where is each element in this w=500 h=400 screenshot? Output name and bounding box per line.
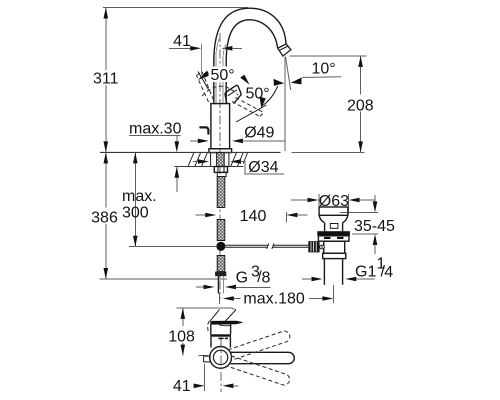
svg-text:140: 140 <box>240 208 267 225</box>
wire 50deg arc arrowheads <box>198 71 211 80</box>
op-amp spout outer arc <box>214 8 286 62</box>
wire ext line x201 <box>200 44 202 76</box>
svg-text:35-45: 35-45 <box>354 218 395 235</box>
op-amp spout inner arc <box>226 20 277 62</box>
wire vertical reference from tip <box>284 57 286 152</box>
wire dashed swung spout up <box>228 330 291 361</box>
svg-text:Ø34: Ø34 <box>248 159 278 176</box>
resistor drain mid body <box>324 241 345 253</box>
wire bottom centerline <box>220 339 222 392</box>
wire G3/8 dimension <box>196 286 205 288</box>
wire 140 dimension <box>196 214 207 216</box>
resistor faucet body <box>211 104 230 149</box>
wire 108 bottom ext <box>199 355 209 357</box>
svg-text:4: 4 <box>384 264 393 281</box>
resistor funnel neck <box>325 223 343 232</box>
wire deck bottom line <box>174 166 243 168</box>
wire dashed swung spout down <box>228 356 291 387</box>
wire bottom view top ext line <box>176 307 231 309</box>
resistor left nub <box>204 356 211 362</box>
wire 41 top dimension <box>169 47 191 49</box>
resistor locknut <box>214 167 227 173</box>
wire ext line at outlet level <box>290 55 367 57</box>
wire 10deg tilted line <box>286 57 291 90</box>
wire Ø34 dimension arrows <box>193 161 199 163</box>
wire 208 dimension line <box>360 56 362 95</box>
capacitor lever blade top view <box>211 321 243 324</box>
svg-text:50°: 50° <box>211 67 235 84</box>
capacitor aerator tip <box>278 44 291 56</box>
wire G1 1/4 dimension <box>312 277 323 282</box>
svg-text:208: 208 <box>347 98 374 115</box>
wire deck top line <box>100 151 281 153</box>
wire pop-up rod left segment <box>226 244 268 246</box>
svg-text:386: 386 <box>91 210 118 227</box>
wire drain centerline ext <box>332 285 334 303</box>
wire max180 dimension <box>223 296 234 301</box>
wire 10deg leader <box>302 76 341 79</box>
resistor neck boss <box>330 224 338 229</box>
svg-text:max.180: max.180 <box>243 291 304 308</box>
wire 41 bottom dimension <box>193 385 195 387</box>
resistor bottom body <box>210 324 212 335</box>
wire top extension line at spout top <box>103 7 248 9</box>
svg-text:41: 41 <box>173 33 191 50</box>
wire max30 underline and leader <box>129 134 181 136</box>
ground deck hatching <box>188 153 247 166</box>
capacitor base flange <box>209 149 232 153</box>
wire 386 dimension line <box>105 152 107 207</box>
wire 108 dimension <box>182 308 184 326</box>
node spout base circle <box>210 347 232 369</box>
wire G3/8 nipple <box>217 276 219 293</box>
svg-text:50°: 50° <box>246 86 270 103</box>
svg-text:300: 300 <box>122 204 149 221</box>
transistor knurled knob <box>308 241 319 252</box>
wire funnel taper <box>319 215 348 222</box>
transistor solid lever tilted <box>225 85 241 103</box>
resistor drain upper body <box>318 236 349 241</box>
svg-text:8: 8 <box>262 270 271 287</box>
wire max300 dimension line <box>134 152 136 246</box>
svg-text:311: 311 <box>93 71 119 88</box>
wire ext line x204 <box>204 364 206 391</box>
capacitor drain flange black <box>317 231 350 236</box>
wire pop-up rod right segment <box>273 244 308 246</box>
wire dashed swing arc <box>202 86 238 96</box>
wire dashed lever right position <box>232 102 260 117</box>
svg-text:41: 41 <box>173 378 191 395</box>
wire spout riser outer walls <box>213 61 215 104</box>
svg-text:10°: 10° <box>312 61 336 78</box>
wire 311 dimension line <box>105 8 107 71</box>
wire Ø63 ext lines <box>318 194 320 214</box>
resistor drain lock ring <box>323 253 346 258</box>
wire nipple ext <box>219 294 221 305</box>
wire deck ext right <box>292 151 365 153</box>
svg-text:Ø49: Ø49 <box>244 125 274 142</box>
resistor drain funnel rim <box>319 207 348 215</box>
node pivot ball <box>320 245 325 249</box>
wire deck hole edges <box>210 153 212 167</box>
resistor braided hose segment 2 <box>217 220 225 241</box>
resistor braided hose segment 3 <box>217 256 225 272</box>
wire rod break marks <box>267 244 269 249</box>
wire spout riser inner walls <box>216 39 220 104</box>
wire raised lever diagonals <box>210 309 220 321</box>
wire tailpipe <box>323 259 325 285</box>
wire ext line at rod level <box>129 246 216 248</box>
resistor shank <box>217 172 226 176</box>
node pop-up rod joint <box>216 242 225 251</box>
wire Ø49 dimension <box>190 140 199 142</box>
diode lever hook left <box>200 127 208 133</box>
resistor braided hose segment 1 <box>217 177 225 208</box>
capacitor hose end fitting <box>215 272 226 277</box>
wire 35-45 dimension <box>340 211 378 213</box>
svg-text:108: 108 <box>168 329 195 346</box>
wire bottom extension line at hose end level <box>100 278 228 280</box>
svg-text:G1: G1 <box>355 264 376 281</box>
svg-text:G: G <box>236 270 248 287</box>
wire spout tube top view <box>231 352 295 363</box>
wire dashed lever left position <box>197 76 209 103</box>
wire faucet centerline <box>219 33 221 299</box>
node 50deg label 1 <box>209 67 238 83</box>
wire ext line x286 <box>285 212 287 223</box>
svg-text:max.: max. <box>122 188 157 205</box>
resistor through-deck shank braided <box>217 153 225 167</box>
wire Ø63 dimension <box>291 199 308 201</box>
